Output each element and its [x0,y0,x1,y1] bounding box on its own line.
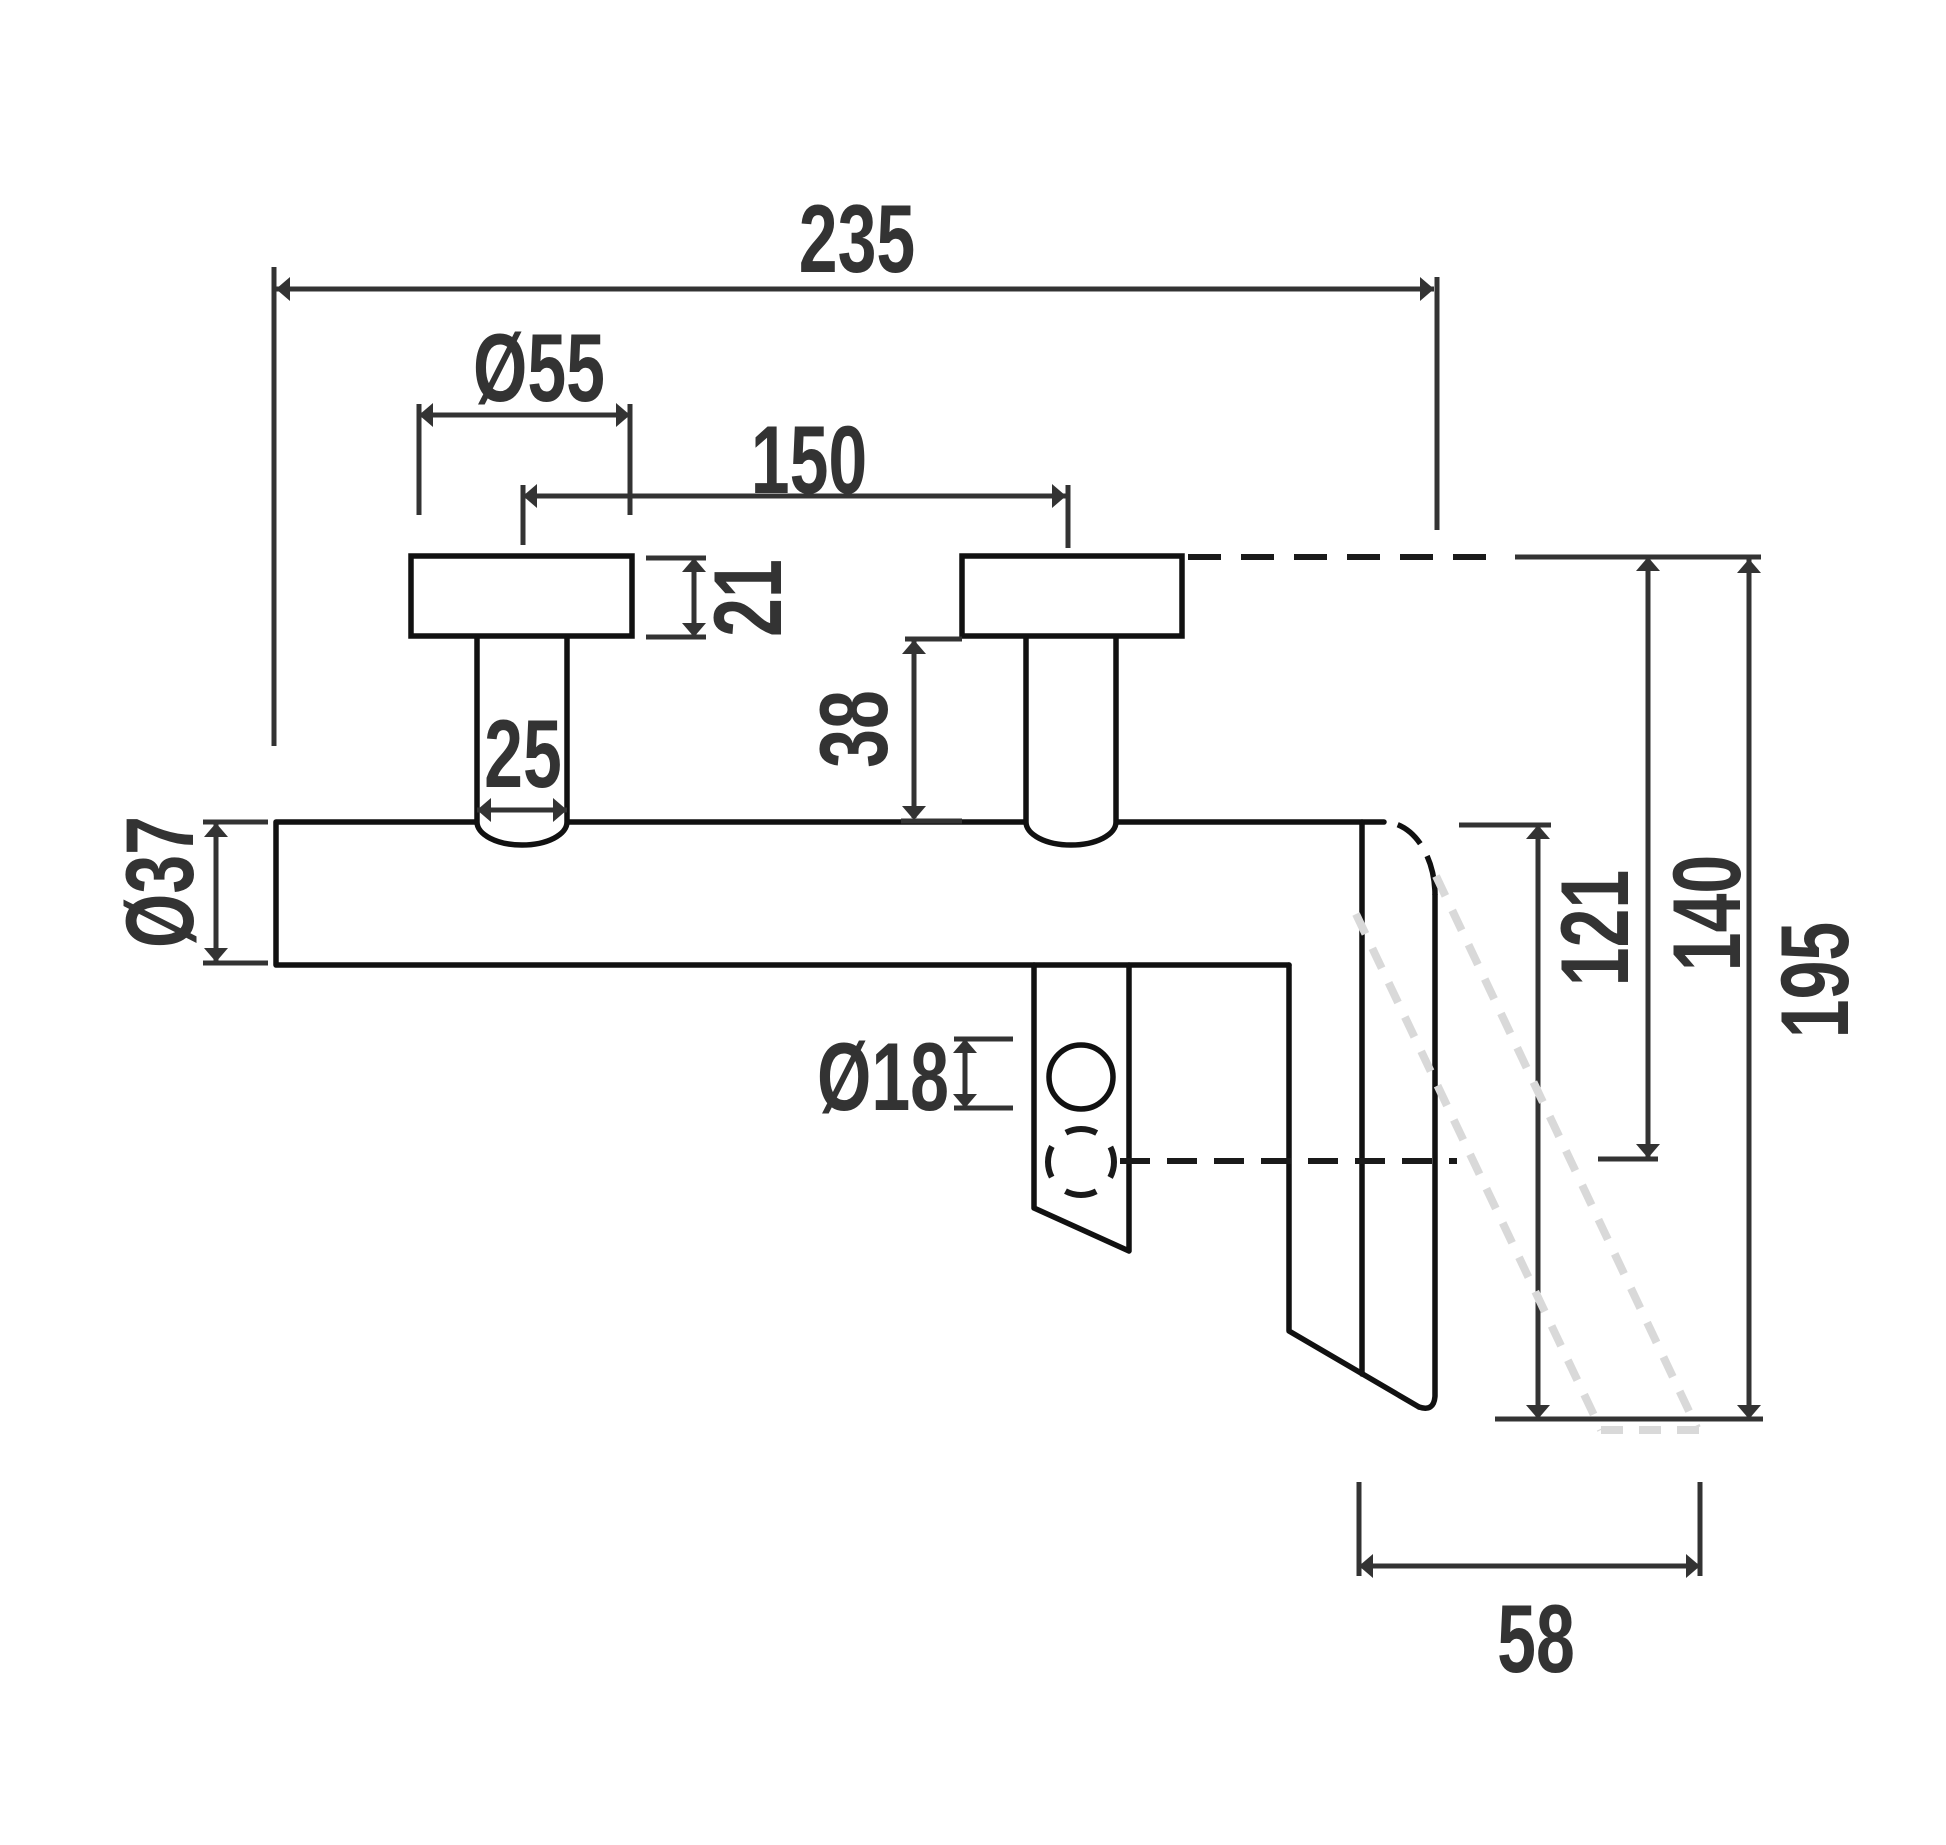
lug hole circle [1049,1045,1113,1109]
svg-text:25: 25 [484,699,562,808]
left mounting leg [477,636,567,845]
dimension 58 line [1359,1554,1700,1578]
dimension 140 tick bottom [1598,1157,1658,1162]
dimension 21 line [682,558,706,637]
dimension D18 tick bottom [954,1106,1013,1111]
plate right edge and bottom edge [1419,895,1435,1408]
dimension D37 line [204,822,228,963]
dimension 58 extension right [1698,1482,1703,1576]
dimension 140 line [1636,557,1660,1158]
dimension D37 tick bottom [203,961,268,966]
svg-text:235: 235 [799,184,916,293]
dimension 150 line [523,484,1066,508]
dimension 195 line [1737,557,1761,1419]
plate bottom tick line [1495,1417,1763,1422]
wall plane tick line top [1515,555,1761,560]
svg-text:121: 121 [1540,870,1649,987]
svg-text:195: 195 [1760,922,1869,1039]
plate front-left vertical edge [1359,822,1365,1374]
dimension 38 tick top [905,637,962,642]
dimension D18 line [953,1039,977,1108]
dimension 21 tick top [646,556,706,561]
svg-text:150: 150 [751,405,868,514]
dimension 25 line [477,798,567,822]
bracket lug below bar [1034,965,1129,1251]
svg-text:58: 58 [1497,1584,1575,1693]
right mounting leg [1026,636,1116,845]
dimension 121 line [1526,825,1550,1419]
dimension 58 extension left [1357,1482,1362,1576]
dimension 150 extension left [521,485,526,545]
dimension 21 tick bottom [646,635,706,640]
glass panel hidden edge right [1436,876,1697,1428]
plate top corner arc partially dashed [1384,822,1435,895]
dimension 121 tick top [1459,823,1551,828]
dimension D55 line [419,403,630,427]
dimension 38 line [902,640,926,820]
wall plane dashed line [1188,554,1500,560]
dimension 235 line [276,277,1434,301]
svg-text:21: 21 [693,559,802,637]
lug hidden hole dashed circle [1048,1129,1114,1195]
glass panel hidden edge left [1356,914,1601,1430]
svg-text:Ø18: Ø18 [817,1022,949,1131]
svg-text:Ø55: Ø55 [473,313,605,422]
dimension 235 extension right [1435,277,1440,530]
glass panel hidden bottom edge [1601,1426,1700,1434]
dimension D55 extension right [628,404,633,515]
dimension 150 extension right [1066,485,1071,548]
svg-text:Ø37: Ø37 [105,816,214,948]
dimension D18 tick top [954,1037,1013,1042]
wall flange left [411,556,632,636]
svg-text:140: 140 [1652,855,1761,972]
dimension D37 tick top [203,820,268,825]
dimension 235 extension left [272,267,277,746]
mixer bar horizontal tube body [276,822,1384,965]
hole axis dashed line [1120,1158,1457,1164]
plate inner back edge [1289,965,1419,1407]
svg-text:38: 38 [799,690,908,768]
dimension 38 tick bottom [901,819,962,824]
wall flange right [962,556,1182,636]
dimension D55 extension left [417,404,422,515]
